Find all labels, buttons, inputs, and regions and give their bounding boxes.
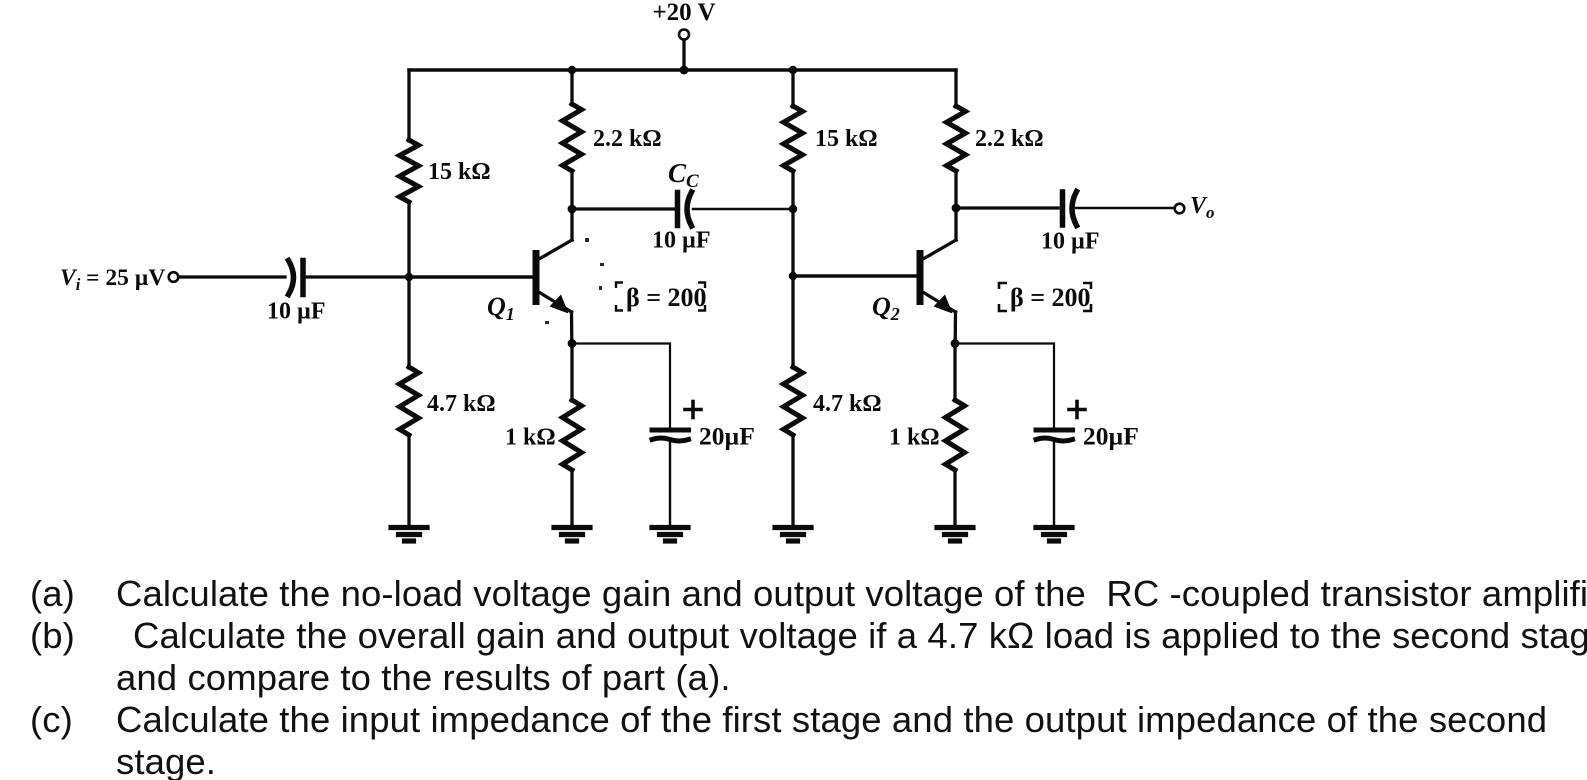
- svg-text:β = 200: β = 200: [1010, 283, 1091, 312]
- svg-text:+20 V: +20 V: [652, 0, 715, 26]
- svg-text:4.7 kΩ: 4.7 kΩ: [427, 391, 496, 417]
- plus sign C5: [1069, 402, 1085, 418]
- svg-text:15 kΩ: 15 kΩ: [428, 159, 491, 185]
- brackets beta stage1: [616, 283, 705, 311]
- junction dot rail/supply: [680, 66, 689, 75]
- wire R6 bottom to collector node: [954, 171, 957, 240]
- node collector Q2 junction dot: [952, 204, 961, 213]
- wire R4 bottom to ground: [407, 435, 410, 525]
- resistor R1 15k stage1 bias: [400, 140, 419, 202]
- node input terminal Vi: [169, 272, 179, 282]
- capacitor C3 20uF plates: [652, 430, 689, 441]
- svg-text:Vi = 25 µV: Vi = 25 µV: [60, 265, 165, 294]
- svg-text:Vo: Vo: [1190, 193, 1215, 222]
- wire Cc link collector Q1 to capacitor: [572, 207, 675, 210]
- wire collector Q2 to output cap C4: [956, 206, 1058, 209]
- wire input to C1: [179, 275, 286, 278]
- wire emitter node to R3 top: [570, 344, 573, 402]
- wire C5 to ground: [1053, 443, 1055, 525]
- resistor R2 2.2k stage1 collector load: [563, 104, 582, 171]
- resistor R3 1k stage1 emitter: [563, 400, 582, 470]
- wire top rail: [409, 68, 956, 71]
- svg-text:10 µF: 10 µF: [267, 299, 326, 325]
- ground G3: [652, 528, 688, 542]
- wire collector diagonal into Q1: [540, 240, 572, 259]
- node emitter Q2 junction dot: [951, 339, 960, 348]
- resistor R7 1k stage2 emitter: [946, 400, 965, 470]
- node base Q2 junction dot: [789, 272, 797, 280]
- emitter arrow Q2: [934, 295, 953, 314]
- node +20V supply terminal: [679, 30, 689, 40]
- ground G4: [775, 528, 811, 542]
- svg-text:CC: CC: [668, 158, 699, 192]
- wire emitter Q2 down to node: [954, 312, 958, 344]
- ground G6: [1036, 528, 1072, 542]
- brackets beta stage2: [999, 283, 1091, 311]
- junction dot rail/R-15k stage2: [789, 66, 797, 74]
- resistor R4 4.7k stage1: [400, 367, 419, 435]
- wire R7 bottom to ground: [953, 470, 956, 525]
- wire R5 bottom through nodes to R8 top: [791, 171, 794, 368]
- wire emitter branch to bypass cap C3: [572, 344, 670, 428]
- node base Q1 junction dot: [405, 273, 413, 281]
- capacitor C5 20uF plates: [1036, 430, 1073, 441]
- svg-text:β = 200: β = 200: [626, 283, 707, 312]
- svg-text:15 kΩ: 15 kΩ: [815, 126, 878, 152]
- svg-text:2.2 kΩ: 2.2 kΩ: [975, 126, 1044, 152]
- capacitor C1 10uF input coupling: [289, 261, 304, 295]
- wire base Q1: [409, 275, 533, 278]
- svg-text:10 µF: 10 µF: [1041, 229, 1100, 255]
- resistor R5 15k stage2 bias: [784, 106, 803, 171]
- transistor Q2: [917, 250, 924, 305]
- wire C3 to ground: [669, 443, 671, 525]
- wire base Q2: [793, 274, 917, 277]
- wire C1 to base node: [306, 275, 409, 278]
- wire R2 bottom to collector node: [570, 171, 573, 240]
- emitter arrow Q1: [550, 295, 569, 314]
- svg-text:20µF: 20µF: [1083, 422, 1139, 451]
- wire R3 bottom to ground: [570, 470, 573, 525]
- node output terminal Vo: [1175, 204, 1185, 214]
- svg-text:20µF: 20µF: [699, 422, 755, 451]
- wire emitter diagonal Q2: [924, 293, 956, 313]
- wire R1 bottom to base node to R4 top: [407, 202, 410, 368]
- resistor R8 4.7k stage2: [784, 367, 803, 435]
- junction dot rail/R-2.2k stage1: [568, 66, 576, 74]
- svg-text:1 kΩ: 1 kΩ: [889, 425, 940, 451]
- wire emitter Q1 down to node: [570, 312, 574, 344]
- junction dot Cc/stage2 divider: [789, 205, 797, 213]
- svg-text:4.7 kΩ: 4.7 kΩ: [813, 391, 882, 417]
- ground G5: [937, 528, 973, 542]
- svg-text:Q1: Q1: [487, 292, 515, 324]
- svg-text:2.2 kΩ: 2.2 kΩ: [593, 126, 662, 152]
- wire rail to R2 top: [570, 70, 573, 105]
- wire C4 to output terminal: [1076, 207, 1174, 209]
- node emitter Q1 junction dot: [568, 339, 577, 348]
- wire C2 to stage2 base line: [693, 208, 793, 210]
- wire emitter node to R7 top: [953, 344, 956, 402]
- capacitor C4 10uF output coupling: [1063, 192, 1077, 226]
- wire rail to R6 top: [954, 70, 957, 107]
- question text block: [30, 573, 1587, 615]
- ground G1: [391, 528, 427, 542]
- svg-text:1 kΩ: 1 kΩ: [505, 425, 556, 451]
- node collector Q1 junction dot: [568, 205, 577, 214]
- svg-text:10 µF: 10 µF: [652, 228, 711, 254]
- plus sign C3: [685, 402, 701, 418]
- speck noise near Q1: [545, 238, 604, 324]
- wire supply stub: [682, 40, 685, 70]
- capacitor C2 Cc 10uF interstage: [678, 192, 692, 226]
- wire R8 bottom to ground: [791, 435, 794, 525]
- wire emitter branch to bypass cap C5: [955, 344, 1054, 428]
- wire emitter diagonal Q1: [540, 293, 572, 313]
- wire rail to R1 top: [407, 70, 410, 141]
- wire collector diagonal into Q2: [924, 240, 956, 259]
- resistor R6 2.2k stage2 collector load: [947, 106, 966, 171]
- ground G2: [554, 528, 590, 542]
- transistor Q1: [533, 250, 540, 305]
- svg-text:Q2: Q2: [872, 292, 900, 324]
- wire rail to R5 top: [791, 70, 794, 107]
